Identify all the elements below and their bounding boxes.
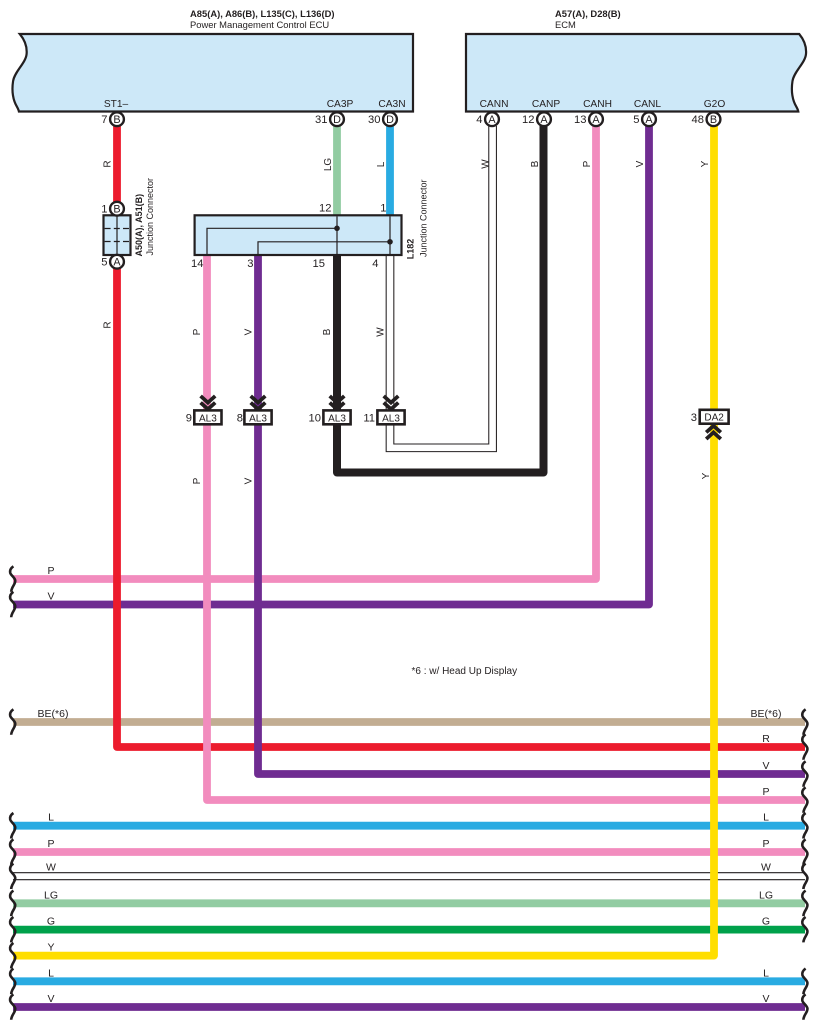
squiggle right P852 (802, 839, 807, 865)
svg-text:A50(A), A51(B): A50(A), A51(B) (134, 194, 144, 257)
svg-text:V: V (762, 760, 769, 772)
junction connector A50(A),A51(B) box (104, 215, 131, 255)
svg-text:P: P (582, 160, 593, 167)
svg-text:V: V (762, 993, 769, 1005)
pin 30(D) circle CA3N (368, 112, 397, 126)
svg-text:5: 5 (633, 114, 639, 126)
svg-text:ECM: ECM (555, 19, 576, 30)
svg-text:1: 1 (101, 204, 107, 216)
svg-text:CANH: CANH (583, 99, 612, 110)
svg-text:R: R (762, 733, 770, 745)
A50 internal dashed line lower (105, 241, 130, 243)
pin 31(D) circle CA3P (315, 112, 344, 126)
A50 internal dashed line upper (105, 228, 130, 230)
svg-text:AL3: AL3 (328, 413, 346, 424)
svg-text:BE(*6): BE(*6) (751, 708, 782, 720)
svg-text:1: 1 (380, 203, 386, 215)
wire L horizontal row 2 (13, 977, 805, 985)
svg-text:LG: LG (44, 889, 58, 901)
svg-text:4: 4 (476, 114, 482, 126)
svg-text:G: G (47, 916, 55, 928)
svg-text:B: B (322, 328, 333, 335)
wire W horizontal row (13, 872, 805, 880)
pin 5(A) circle A50 bottom (101, 255, 124, 269)
svg-text:DA2: DA2 (704, 413, 724, 424)
svg-text:P: P (47, 565, 54, 577)
junction connector L182 box (195, 215, 402, 255)
squiggle right V1007 (802, 994, 807, 1020)
squiggle right P800 (802, 787, 807, 813)
squiggle left L981 (10, 969, 15, 995)
svg-text:CANL: CANL (634, 99, 662, 110)
svg-text:8: 8 (237, 413, 243, 425)
squiggle left LG903 (10, 891, 15, 917)
squiggle left V1007 (10, 994, 15, 1020)
svg-text:L: L (48, 812, 54, 824)
svg-text:31: 31 (315, 114, 327, 126)
svg-text:Y: Y (701, 472, 712, 479)
squiggle right LG903 (802, 891, 807, 917)
svg-text:B: B (710, 114, 717, 126)
squiggle left V604 (10, 592, 15, 618)
L182 junction dot upper (334, 226, 340, 232)
wire G horizontal row (13, 926, 805, 934)
wire V from CANL to left edge (13, 126, 649, 605)
svg-text:7: 7 (101, 114, 107, 126)
svg-text:Y: Y (700, 160, 711, 167)
connector AL3 pin 11 box (363, 396, 404, 425)
squiggle left W876 (10, 864, 15, 890)
svg-text:CA3N: CA3N (378, 99, 405, 110)
squiggle right V774 (802, 761, 807, 787)
pin 12(A) circle CANP (522, 112, 551, 126)
svg-text:B: B (113, 204, 120, 216)
pin 5(A) circle CANL (633, 112, 656, 126)
L182 internal line pin12 to pin15 (336, 216, 338, 254)
squiggle terminators (10, 566, 807, 1020)
svg-text:A: A (113, 257, 121, 269)
svg-text:12: 12 (319, 203, 331, 215)
squiggle left G929 (10, 917, 15, 943)
squiggle left Y955 (10, 943, 15, 969)
svg-text:V: V (244, 477, 255, 484)
svg-text:13: 13 (574, 114, 586, 126)
svg-text:A: A (645, 114, 653, 126)
svg-text:15: 15 (313, 258, 325, 270)
svg-text:CANN: CANN (480, 99, 509, 110)
svg-text:Power Management Control ECU: Power Management Control ECU (190, 19, 329, 30)
svg-text:W: W (481, 159, 492, 169)
svg-text:*6 : w/ Head Up Display: *6 : w/ Head Up Display (412, 666, 518, 677)
wire W from L182 pin 4 through AL3 to CANN (390, 126, 493, 448)
svg-text:B: B (113, 114, 120, 126)
svg-text:V: V (47, 993, 54, 1005)
box Power Management Control ECU (13, 34, 413, 112)
wire Y from G2O through DA2 down and left to edge (13, 126, 714, 956)
svg-text:Junction Connector: Junction Connector (419, 179, 429, 257)
svg-text:AL3: AL3 (382, 413, 400, 424)
svg-text:A85(A), A86(B), L135(C), L136(: A85(A), A86(B), L135(C), L136(D) (190, 8, 334, 19)
svg-text:V: V (635, 160, 646, 167)
svg-text:LG: LG (323, 158, 334, 172)
wire LG from CA3P to L182 pin 12 (333, 125, 341, 216)
svg-text:AL3: AL3 (199, 413, 217, 424)
svg-text:D: D (333, 114, 341, 126)
pin 13(A) circle CANH (574, 112, 603, 126)
A50 internal vertical line (116, 216, 118, 254)
L182 internal line pin1 to pin4 (389, 216, 391, 254)
squiggle left P579 (10, 566, 15, 592)
L182 internal branch to pin14 (207, 228, 337, 254)
svg-text:9: 9 (186, 413, 192, 425)
wire P from CANH to left edge (13, 126, 596, 579)
svg-text:P: P (192, 328, 203, 335)
pin 48(B) circle G2O (692, 112, 721, 126)
L182 internal branch to pin3 (258, 242, 390, 254)
svg-text:L182: L182 (406, 239, 416, 260)
svg-text:BE(*6): BE(*6) (38, 708, 69, 720)
wire B from L182 pin 15 through AL3 to CANP (337, 126, 544, 473)
svg-text:AL3: AL3 (249, 413, 267, 424)
svg-text:P: P (192, 477, 203, 484)
svg-text:A: A (488, 114, 496, 126)
squiggle right BE (802, 709, 807, 735)
svg-text:A57(A), D28(B): A57(A), D28(B) (555, 8, 621, 19)
wire LG horizontal row (13, 899, 805, 907)
svg-text:P: P (47, 838, 54, 850)
connector AL3 pin 10 box (309, 396, 351, 425)
L182 junction dot lower (387, 239, 393, 245)
svg-text:30: 30 (368, 114, 380, 126)
svg-text:W: W (46, 861, 56, 873)
pin 1(B) circle A50 top (101, 202, 124, 216)
squiggle right G929 (802, 917, 807, 943)
svg-text:ST1–: ST1– (104, 99, 129, 110)
svg-text:W: W (761, 861, 771, 873)
svg-text:V: V (244, 328, 255, 335)
squiggle right L825 (802, 813, 807, 839)
wire L from CA3N to L182 pin 1 (386, 125, 394, 216)
svg-text:G: G (762, 916, 770, 928)
svg-text:3: 3 (691, 412, 697, 424)
svg-text:12: 12 (522, 114, 534, 126)
wire BE(*6) horizontal (13, 718, 805, 726)
wire V from L182 pin 3 through AL3 down right to edge (258, 255, 805, 774)
connector DA2 pin 3 box (691, 410, 729, 439)
svg-text:V: V (47, 591, 54, 603)
squiggle right L981 (802, 969, 807, 995)
svg-text:B: B (530, 160, 541, 167)
squiggle right R747 (802, 734, 807, 760)
svg-text:3: 3 (247, 258, 253, 270)
svg-text:4: 4 (372, 258, 378, 270)
svg-text:G2O: G2O (704, 99, 726, 110)
svg-text:LG: LG (759, 889, 773, 901)
svg-text:5: 5 (101, 257, 107, 269)
svg-text:14: 14 (191, 258, 203, 270)
svg-text:CA3P: CA3P (327, 99, 354, 110)
svg-text:48: 48 (692, 114, 704, 126)
svg-text:L: L (376, 161, 387, 167)
svg-text:D: D (386, 114, 394, 126)
svg-text:10: 10 (309, 413, 321, 425)
wire L horizontal row 1 (13, 822, 805, 830)
connector AL3 pin 9 box (186, 396, 222, 425)
svg-text:L: L (763, 812, 769, 824)
svg-text:L: L (48, 967, 54, 979)
squiggle right W876 (802, 864, 807, 890)
wire P from L182 pin 14 through AL3 down right to edge (207, 255, 805, 800)
pin 4(A) circle CANN (476, 112, 499, 126)
svg-text:Y: Y (47, 942, 54, 954)
wire P horizontal row (13, 848, 805, 856)
wire V horizontal row 2 (13, 1003, 805, 1011)
wire R from ST1- to junction A50 (113, 125, 121, 202)
svg-text:L: L (763, 967, 769, 979)
svg-text:A: A (540, 114, 548, 126)
svg-text:R: R (103, 321, 114, 328)
box ECM (466, 34, 806, 112)
svg-text:P: P (762, 838, 769, 850)
svg-text:CANP: CANP (532, 99, 561, 110)
svg-text:P: P (762, 786, 769, 798)
wire R from junction A50 down and right to edge (117, 268, 805, 747)
squiggle left L825 (10, 813, 15, 839)
connector AL3 pin 8 box (237, 396, 272, 425)
squiggle left P852 (10, 839, 15, 865)
svg-text:11: 11 (363, 413, 375, 425)
pin 7(B) circle ST1- (101, 112, 124, 126)
svg-text:W: W (376, 327, 387, 337)
svg-text:A: A (592, 114, 600, 126)
svg-text:R: R (103, 160, 114, 167)
svg-text:Junction Connector: Junction Connector (145, 178, 155, 256)
squiggle left BE (10, 709, 15, 735)
